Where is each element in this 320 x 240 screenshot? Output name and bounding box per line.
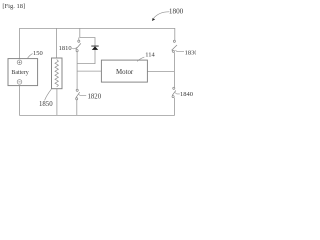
svg-text:1820: 1820 [88,93,102,100]
svg-text:1840: 1840 [180,91,193,98]
svg-text:Battery: Battery [11,70,28,76]
svg-text:1850: 1850 [39,101,53,108]
svg-text:150: 150 [33,50,43,57]
svg-text:1800: 1800 [169,8,184,16]
svg-text:Motor: Motor [116,69,134,76]
svg-text:114: 114 [145,52,155,59]
svg-text:1830: 1830 [185,50,196,57]
svg-text:1810: 1810 [59,45,72,52]
svg-text:[Fig. 18]: [Fig. 18] [2,3,25,10]
